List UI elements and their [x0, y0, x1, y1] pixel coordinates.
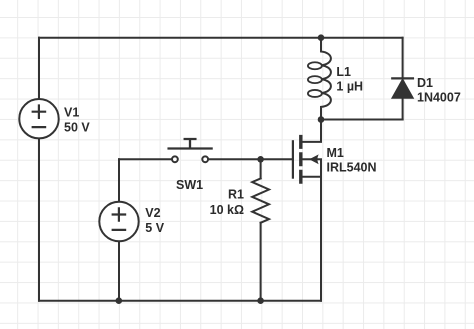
node gate / R1 top junction [257, 156, 264, 163]
node R1 bottom junction [257, 297, 264, 304]
wire top rail [39, 37, 403, 39]
node L1 top junction [318, 34, 325, 41]
wire left rail top (V1 top lead) [38, 38, 40, 99]
voltage source V1 [19, 99, 58, 138]
svg-text:1 µH: 1 µH [336, 80, 363, 94]
svg-text:5 V: 5 V [145, 221, 164, 235]
wire gate lead [261, 158, 292, 160]
svg-text:IRL540N: IRL540N [327, 161, 377, 175]
node L1 bottom / drain junction [318, 116, 325, 123]
svg-text:10 kΩ: 10 kΩ [210, 203, 244, 217]
svg-text:V2: V2 [145, 206, 160, 220]
svg-text:M1: M1 [327, 146, 344, 160]
voltage source V2 [99, 159, 138, 300]
wire bottom rail [39, 300, 321, 302]
node V2 bottom junction [116, 297, 123, 304]
svg-text:D1: D1 [417, 76, 433, 90]
wire left rail bottom (V1 bottom lead) [38, 138, 40, 300]
svg-text:V1: V1 [64, 105, 79, 119]
svg-text:1N4007: 1N4007 [417, 91, 461, 105]
svg-text:L1: L1 [336, 65, 351, 79]
svg-text:SW1: SW1 [176, 178, 203, 192]
resistor R1 [252, 159, 269, 300]
switch SW1 (pushbutton) [119, 139, 261, 162]
wire L1 bottom to D1 bottom [321, 119, 403, 121]
inductor L1 [308, 38, 331, 120]
diode D1 [392, 38, 414, 120]
svg-text:50 V: 50 V [64, 121, 90, 135]
n-channel MOSFET M1 [293, 120, 321, 301]
svg-text:R1: R1 [228, 188, 244, 202]
